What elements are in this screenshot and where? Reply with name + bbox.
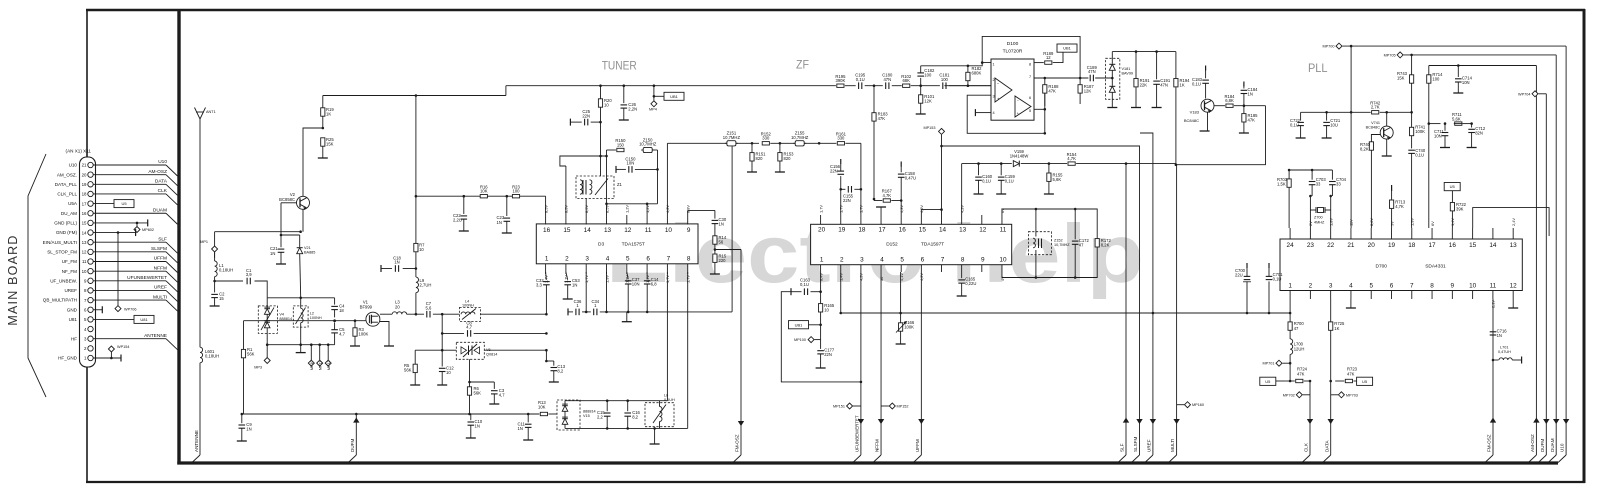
svg-text:4: 4 bbox=[1349, 282, 1353, 289]
svg-text:MP700: MP700 bbox=[1322, 45, 1334, 49]
varicap V6 Q0814 bbox=[442, 349, 456, 351]
resistor R713 4.7K bbox=[1391, 185, 1393, 191]
resistor R5 56K bbox=[413, 364, 417, 372]
wire V741 collector bbox=[1386, 112, 1388, 126]
svg-text:UF_FM: UF_FM bbox=[62, 259, 77, 264]
connector pin 13 bbox=[88, 240, 93, 245]
svg-text:1K: 1K bbox=[1180, 82, 1185, 87]
capacitor C158 0.47U bbox=[900, 166, 902, 172]
test points MP10 MP11 MP12 bbox=[310, 345, 312, 360]
capacitor C156 22N bbox=[840, 176, 842, 189]
svg-text:2,2: 2,2 bbox=[597, 415, 603, 420]
svg-text:MP100: MP100 bbox=[794, 338, 806, 342]
svg-text:GND (FM): GND (FM) bbox=[56, 230, 78, 235]
svg-text:8,5V: 8,5V bbox=[584, 205, 589, 213]
svg-text:5: 5 bbox=[900, 256, 904, 263]
svg-text:7: 7 bbox=[941, 256, 945, 263]
op-amp IC D3 TDA1575T box bbox=[536, 224, 698, 264]
svg-text:8,2: 8,2 bbox=[557, 369, 563, 374]
svg-text:8,5V: 8,5V bbox=[543, 205, 548, 213]
D700 pin 3 bbox=[1330, 291, 1332, 300]
wire Z152 loop bottom bbox=[1002, 247, 1097, 277]
resistor R172 8.2K bbox=[1095, 239, 1099, 247]
wire pin8 long down bbox=[687, 272, 689, 428]
svg-text:6V: 6V bbox=[1430, 221, 1435, 226]
wire pin7 out bbox=[1034, 77, 1088, 79]
svg-text:1: 1 bbox=[545, 256, 549, 263]
D700 pin 17 bbox=[1431, 228, 1433, 239]
capacitor C160 0.1U bbox=[978, 164, 980, 176]
wire C182 to R182 pin1 net bbox=[921, 65, 968, 67]
D700 pin 1 bbox=[1289, 291, 1291, 300]
svg-text:MP153: MP153 bbox=[923, 126, 935, 130]
wire to C7 bbox=[407, 313, 424, 315]
test point MP100 bbox=[820, 325, 822, 340]
svg-text:MP11: MP11 bbox=[319, 361, 323, 370]
svg-text:MULTI: MULTI bbox=[153, 294, 167, 300]
wire pin2 bbox=[944, 85, 991, 87]
wire AM-OSZ from connector pin 20 to bus bbox=[93, 174, 166, 176]
svg-text:SDA4331: SDA4331 bbox=[1425, 264, 1446, 270]
D152 pin 14 bbox=[941, 215, 943, 224]
resistor R16 10K bbox=[480, 195, 487, 198]
svg-text:UB1: UB1 bbox=[670, 94, 679, 99]
svg-text:2,4V: 2,4V bbox=[1511, 218, 1516, 226]
resistor R19 1K bbox=[322, 96, 324, 108]
connector pin 4 bbox=[88, 326, 93, 331]
wire UREF from connector pin 8 to bus bbox=[93, 289, 166, 291]
svg-text:DUAM: DUAM bbox=[153, 207, 167, 213]
resistor R723 47K bbox=[1335, 380, 1344, 382]
D3 pin 10 bbox=[666, 215, 668, 225]
svg-text:9: 9 bbox=[687, 227, 691, 234]
svg-text:1N: 1N bbox=[1248, 92, 1253, 97]
capacitor C32 3.3 bbox=[545, 272, 548, 280]
capacitor C14 6.8 bbox=[646, 272, 648, 279]
svg-text:17: 17 bbox=[1429, 242, 1437, 249]
svg-text:V15: V15 bbox=[583, 414, 590, 418]
svg-text:56K: 56K bbox=[474, 391, 482, 396]
resistor R714 100 bbox=[1428, 66, 1430, 75]
D700 pin 14 bbox=[1492, 228, 1494, 239]
svg-text:V181: V181 bbox=[1122, 67, 1131, 71]
capacitor C177 22N bbox=[820, 340, 822, 349]
capacitor C30 1N bbox=[714, 210, 716, 218]
svg-text:NFFM: NFFM bbox=[154, 265, 167, 271]
svg-text:UFUNBEWERTET: UFUNBEWERTET bbox=[855, 415, 860, 452]
D152 pin 6 bbox=[920, 265, 922, 272]
svg-text:L701: L701 bbox=[1500, 345, 1508, 349]
crystal Z700 4MHZ bbox=[1309, 196, 1311, 228]
D3 pin 16 bbox=[545, 215, 547, 225]
ground C191 bbox=[1152, 107, 1162, 109]
D700 pin 9 bbox=[1451, 291, 1453, 300]
ground R5 bbox=[410, 384, 420, 386]
svg-text:11: 11 bbox=[1490, 282, 1497, 289]
svg-text:5: 5 bbox=[626, 256, 630, 263]
ground R15 bbox=[710, 273, 720, 275]
svg-text:100K: 100K bbox=[904, 325, 914, 330]
varicap V15 888814 bbox=[557, 400, 580, 430]
svg-text:DATA: DATA bbox=[155, 179, 168, 185]
svg-text:330: 330 bbox=[762, 136, 770, 141]
connector pin 12 bbox=[88, 249, 93, 254]
svg-text:22U: 22U bbox=[1235, 273, 1243, 278]
ground C22 bbox=[459, 230, 469, 232]
transistor V741 BC848C bbox=[1380, 126, 1393, 139]
wire y=146 to SLSFM bbox=[942, 146, 1140, 455]
svg-text:1N: 1N bbox=[270, 251, 275, 256]
inductor L701 0.47UH bbox=[1493, 359, 1499, 361]
capacitor C163 0.1U bbox=[790, 288, 792, 295]
wire pin4 down bbox=[606, 272, 608, 312]
wire R5 tap bbox=[415, 349, 442, 351]
resistor R6 56K bbox=[469, 359, 471, 386]
svg-text:3: 3 bbox=[585, 256, 589, 263]
wire pin6 GND bbox=[93, 309, 102, 311]
wire pin5 to U81 box bbox=[93, 318, 134, 320]
svg-text:U5: U5 bbox=[1450, 184, 1456, 189]
svg-text:(AN X1) X11: (AN X1) X11 bbox=[66, 149, 92, 154]
ground R101 bbox=[916, 113, 926, 115]
test point MP3 bbox=[266, 345, 268, 358]
capacitor C150 10N bbox=[615, 166, 617, 173]
svg-text:WP706: WP706 bbox=[124, 307, 136, 311]
op-amp A triangle bbox=[995, 78, 1012, 102]
resistor R7 10 bbox=[414, 243, 418, 251]
wire op-amp B out bbox=[1034, 108, 1045, 110]
D152 pin 18 bbox=[860, 215, 862, 224]
wire pin14 to pin6 vertical bbox=[117, 233, 119, 306]
ground tank bbox=[654, 428, 656, 444]
svg-text:Q0814: Q0814 bbox=[486, 353, 497, 357]
D152 pin 19 bbox=[840, 215, 842, 224]
svg-text:18: 18 bbox=[858, 227, 866, 234]
D700 pin 7 bbox=[1411, 291, 1413, 300]
svg-text:23: 23 bbox=[1307, 242, 1315, 249]
svg-text:D700: D700 bbox=[1376, 264, 1388, 270]
wire to C181 bbox=[911, 85, 940, 87]
svg-text:20: 20 bbox=[1368, 242, 1376, 249]
resistor R23 100 bbox=[512, 195, 519, 198]
resistor R725 1K bbox=[1329, 322, 1333, 330]
svg-text:10K: 10K bbox=[538, 404, 546, 409]
svg-text:47K: 47K bbox=[1048, 89, 1056, 94]
capacitor C195 0.1U bbox=[845, 85, 856, 87]
svg-text:0,1UH: 0,1UH bbox=[664, 398, 675, 402]
svg-text:DU_AM: DU_AM bbox=[61, 211, 77, 216]
net label U5 bbox=[114, 200, 134, 208]
resistor R161 330 bbox=[837, 142, 844, 145]
svg-text:V183: V183 bbox=[1190, 110, 1200, 115]
ground C711 bbox=[1440, 147, 1450, 149]
D3 pin 11 bbox=[646, 215, 648, 225]
capacitor C11 1N bbox=[527, 414, 529, 422]
svg-text:11: 11 bbox=[82, 259, 87, 264]
svg-text:FM-OSZ: FM-OSZ bbox=[1487, 434, 1492, 452]
svg-text:20: 20 bbox=[818, 227, 826, 234]
svg-text:2: 2 bbox=[993, 78, 995, 82]
D700 pin 12 bbox=[1512, 291, 1514, 300]
svg-text:6,8K: 6,8K bbox=[1225, 98, 1234, 103]
op-amp IC D152 TDA1597T box bbox=[811, 224, 1012, 264]
svg-text:3,9: 3,9 bbox=[246, 272, 252, 277]
svg-text:4,7K: 4,7K bbox=[882, 193, 891, 198]
wire DUFM from WP704 bbox=[1538, 93, 1546, 95]
capacitor C191 47N bbox=[1156, 52, 1158, 80]
wire FM-OSZ left bbox=[740, 250, 742, 456]
D700 pin 11 bbox=[1492, 291, 1494, 300]
transformer Z1 bbox=[576, 176, 614, 199]
svg-text:4,7: 4,7 bbox=[499, 392, 505, 397]
resistor R703 1.5K bbox=[1288, 170, 1290, 179]
wire MULTI from connector pin 7 to bus bbox=[93, 299, 166, 301]
connector pin 20 bbox=[88, 172, 93, 177]
svg-text:U81: U81 bbox=[140, 317, 148, 322]
capacitor C181 100 bbox=[942, 82, 944, 89]
svg-text:U5: U5 bbox=[121, 201, 127, 206]
D700 pin 8 bbox=[1431, 291, 1433, 300]
svg-text:820: 820 bbox=[756, 156, 764, 161]
capacitor C34 1 bbox=[593, 309, 595, 316]
wire Z1 to pins bbox=[585, 199, 587, 216]
svg-text:ANTENNE: ANTENNE bbox=[194, 430, 199, 452]
resistor R185 47K bbox=[1243, 106, 1245, 114]
svg-text:10: 10 bbox=[82, 269, 87, 274]
svg-text:BAV99: BAV99 bbox=[1122, 72, 1134, 76]
svg-text:330: 330 bbox=[837, 136, 845, 141]
resistor R743 15K bbox=[1411, 55, 1413, 75]
loop R150/Z150/C150 bbox=[607, 149, 616, 151]
resistor R155 5.6K bbox=[1048, 164, 1050, 173]
resistor R153 820 bbox=[779, 143, 781, 152]
svg-text:7: 7 bbox=[1029, 75, 1031, 79]
wire Z151 ground leg bbox=[731, 146, 733, 312]
capacitor C165 0.22U bbox=[961, 272, 963, 278]
svg-text:1,7V: 1,7V bbox=[818, 205, 823, 213]
svg-text:SLF: SLF bbox=[1120, 443, 1125, 452]
ground V181 bbox=[1107, 107, 1117, 109]
resistor R152 330 bbox=[762, 142, 769, 145]
wire V741 emitter bbox=[1386, 139, 1388, 156]
capacitor C182 100 bbox=[920, 78, 922, 86]
svg-text:0,1U: 0,1U bbox=[800, 282, 809, 287]
capacitor C711 10N bbox=[1444, 124, 1446, 131]
svg-text:8,2K: 8,2K bbox=[1101, 243, 1110, 248]
capacitor C25 22N bbox=[569, 119, 571, 126]
resistor R150 150 bbox=[617, 148, 624, 151]
wire pin4 ground bbox=[975, 112, 991, 114]
ground C159 bbox=[996, 193, 1006, 195]
svg-text:16: 16 bbox=[1449, 242, 1457, 249]
wire pin11 down FM-OSZ bbox=[1492, 299, 1494, 455]
svg-text:33: 33 bbox=[1336, 182, 1341, 187]
svg-text:ANT1: ANT1 bbox=[206, 110, 216, 114]
capacitor C21 1N bbox=[280, 235, 282, 247]
IF tank rails bbox=[565, 400, 667, 402]
test point MP4 bbox=[653, 86, 655, 97]
svg-text:0,1U: 0,1U bbox=[1415, 153, 1424, 158]
inductor L601 0.18UH on antenna line bbox=[200, 347, 203, 363]
svg-text:6: 6 bbox=[1390, 282, 1394, 289]
connector pin 8 bbox=[88, 288, 93, 293]
svg-text:PLL: PLL bbox=[1308, 61, 1328, 75]
svg-text:56K: 56K bbox=[247, 352, 255, 357]
svg-text:39K: 39K bbox=[1456, 207, 1464, 212]
wire DATA vertical bbox=[1329, 380, 1332, 383]
ground R151 bbox=[747, 171, 757, 173]
svg-text:SLSFM: SLSFM bbox=[1133, 437, 1138, 452]
ground R155 bbox=[1044, 193, 1054, 195]
svg-text:10: 10 bbox=[665, 227, 673, 234]
svg-text:0,47UH: 0,47UH bbox=[1498, 350, 1511, 354]
wire y=196 to pin16 bbox=[416, 195, 546, 197]
wire y=311.9 C36/C34 bbox=[567, 308, 569, 315]
svg-text:10K: 10K bbox=[480, 189, 488, 194]
net label U81 bbox=[134, 315, 154, 323]
ground C712 bbox=[1467, 147, 1477, 149]
diode V159 1N4148W bbox=[1013, 161, 1019, 167]
svg-text:FM-OSZ: FM-OSZ bbox=[735, 434, 740, 452]
D700 pin 22 bbox=[1330, 228, 1332, 239]
svg-text:18: 18 bbox=[339, 308, 344, 313]
wire MP700 vertical to pin21 bbox=[1350, 46, 1352, 228]
wire V2 base bbox=[281, 202, 297, 204]
svg-text:0,18UH: 0,18UH bbox=[219, 268, 233, 273]
svg-text:4MHZ: 4MHZ bbox=[1314, 220, 1325, 224]
svg-text:UREF: UREF bbox=[1147, 439, 1152, 452]
capacitor C26 2.2N bbox=[623, 86, 625, 103]
svg-text:U10: U10 bbox=[69, 163, 78, 168]
svg-text:12K: 12K bbox=[1084, 89, 1092, 94]
capacitor C189 47N bbox=[1089, 75, 1091, 82]
D152 pin 20 bbox=[820, 215, 822, 224]
svg-text:WP704: WP704 bbox=[1518, 92, 1530, 96]
svg-text:TDA1597T: TDA1597T bbox=[921, 242, 944, 248]
wire V1 source bbox=[380, 322, 389, 347]
resistor R188 47K bbox=[1044, 78, 1046, 84]
D700 pin 6 bbox=[1391, 291, 1393, 300]
connector pin 11 bbox=[88, 259, 93, 264]
test point MP700 bbox=[1336, 43, 1342, 49]
svg-text:7: 7 bbox=[1410, 282, 1414, 289]
svg-text:DUFM: DUFM bbox=[350, 439, 355, 452]
wire to C180 bbox=[865, 85, 883, 87]
resistor R3 100K bbox=[354, 321, 356, 328]
wire R13 to V15 bbox=[548, 413, 557, 415]
D152 pin 17 bbox=[880, 215, 882, 224]
svg-text:8: 8 bbox=[687, 256, 691, 263]
svg-text:0,18UH: 0,18UH bbox=[205, 354, 219, 359]
wire pin7 long down bbox=[666, 272, 668, 401]
svg-text:4,7K: 4,7K bbox=[1067, 156, 1076, 161]
net label UB1 bbox=[1053, 52, 1063, 62]
test point MP701 bbox=[1282, 362, 1290, 364]
svg-text:TDA1575T: TDA1575T bbox=[622, 241, 645, 247]
ground D700 pin12 bbox=[1512, 299, 1514, 308]
svg-text:12: 12 bbox=[1046, 55, 1051, 60]
svg-text:56: 56 bbox=[719, 240, 724, 245]
ground C721 bbox=[1322, 137, 1332, 139]
IC D700 SDA4331 box bbox=[1280, 239, 1522, 291]
svg-text:2,2N: 2,2N bbox=[628, 107, 637, 112]
svg-text:10N: 10N bbox=[1434, 134, 1442, 139]
wire VCO rail y=112.3 bbox=[1301, 111, 1371, 113]
svg-text:100NH: 100NH bbox=[310, 316, 322, 320]
svg-text:15: 15 bbox=[1469, 242, 1477, 249]
svg-text:U5: U5 bbox=[1265, 379, 1271, 384]
resistor R14 56 bbox=[713, 236, 717, 244]
svg-text:4,7: 4,7 bbox=[466, 325, 472, 330]
ground C23 bbox=[502, 232, 512, 234]
svg-text:3: 3 bbox=[860, 256, 864, 263]
ground C3 bbox=[489, 403, 499, 405]
svg-text:1: 1 bbox=[993, 63, 995, 67]
connector pin 14 bbox=[88, 230, 93, 235]
resistor R191 22K bbox=[1135, 52, 1137, 79]
connector pin 10 bbox=[88, 268, 93, 273]
D152 pin 3 bbox=[860, 265, 862, 272]
svg-text:1N: 1N bbox=[572, 283, 577, 288]
ground C21 bbox=[276, 263, 286, 265]
svg-text:SL_STOP_FM: SL_STOP_FM bbox=[47, 249, 77, 254]
svg-text:4: 4 bbox=[880, 256, 884, 263]
resistor R154 4.7K bbox=[1068, 162, 1075, 165]
ground V1 source bbox=[384, 345, 394, 347]
ground C160 bbox=[974, 193, 984, 195]
wire AM-OSZ rail y=65.5 bbox=[1429, 65, 1537, 67]
connector pin 17 bbox=[88, 201, 93, 206]
ground R25 bbox=[318, 157, 328, 159]
resistor R20 10 bbox=[600, 86, 602, 99]
wire pin14 up to MP153 line bbox=[941, 146, 943, 215]
D3 pin 4 bbox=[606, 264, 608, 274]
capacitor C703 33 bbox=[1311, 170, 1313, 180]
svg-text:33: 33 bbox=[1316, 182, 1321, 187]
svg-text:MP1: MP1 bbox=[200, 240, 208, 244]
svg-text:47N: 47N bbox=[1160, 82, 1168, 87]
svg-text:6,8: 6,8 bbox=[651, 282, 657, 287]
wire pin16 drop bbox=[545, 196, 547, 215]
svg-text:6: 6 bbox=[646, 256, 650, 263]
D3 pin 9 bbox=[687, 215, 689, 225]
svg-text:3: 3 bbox=[993, 95, 995, 99]
D700 pin 5 bbox=[1370, 291, 1372, 300]
svg-text:D3: D3 bbox=[598, 241, 604, 247]
capacitor C172 47 bbox=[1074, 209, 1076, 239]
svg-text:16: 16 bbox=[82, 211, 87, 216]
svg-text:15: 15 bbox=[919, 227, 927, 234]
svg-text:DATA: DATA bbox=[1324, 439, 1329, 452]
wire pin3 feedback loop bbox=[967, 95, 1045, 133]
capacitor C716 1N bbox=[1490, 331, 1497, 333]
svg-text:MULTI: MULTI bbox=[1170, 439, 1175, 452]
wire U10 from connector pin 21 to bus bbox=[93, 164, 166, 166]
svg-text:MP701: MP701 bbox=[1262, 362, 1274, 366]
ground C13 bbox=[549, 381, 559, 383]
svg-text:1K: 1K bbox=[326, 111, 331, 116]
wire V1 drain bbox=[380, 313, 392, 315]
svg-text:8: 8 bbox=[1029, 63, 1031, 67]
wire pin1 bbox=[93, 357, 121, 359]
page border left bbox=[86, 10, 88, 482]
svg-text:0,1U: 0,1U bbox=[982, 178, 991, 183]
svg-text:AM-OSZ: AM-OSZ bbox=[148, 169, 167, 175]
inductor L3 20 bbox=[392, 312, 406, 314]
wire xtal top rail bbox=[1289, 169, 1332, 171]
test point WP706 bbox=[115, 306, 121, 312]
resistor R165 10 bbox=[820, 292, 822, 304]
